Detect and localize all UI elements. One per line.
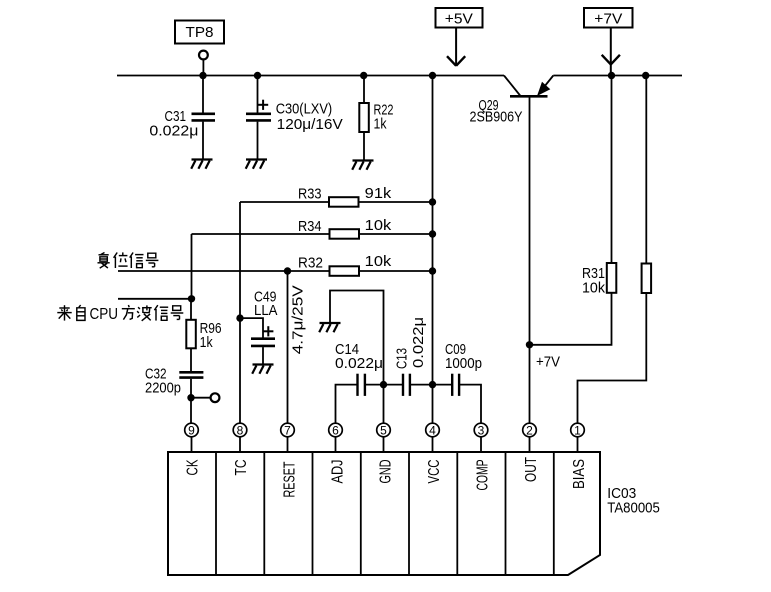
node junction R22 on rail [360,72,367,79]
capacitor C13 [384,374,433,396]
wire Q29 base down to pin 2 OUT [529,98,531,424]
label R96 1k [200,320,222,351]
node junction VCC tap on rail [429,72,436,79]
power +7V arrow [602,28,620,76]
pin circle 8 [233,423,247,437]
svg-text:C13: C13 [394,348,411,369]
resistor R33 [240,197,433,207]
svg-text:ADJ: ADJ [330,460,347,484]
wire C32 node to open terminal [191,397,211,399]
label R32 10k [298,253,392,272]
svg-text:4.7μ/25V: 4.7μ/25V [290,285,307,354]
label Q29 2SB906Y [470,97,523,126]
svg-text:BIAS: BIAS [571,459,588,489]
IC03 internal dividers [216,452,554,575]
svg-text:C30(LXV): C30(LXV) [276,101,333,118]
svg-text:1: 1 [574,423,581,437]
node junction C30 on rail [254,72,261,79]
svg-text:4: 4 [429,423,436,437]
IC U IC03 body [168,452,600,575]
svg-text:1k: 1k [374,116,387,133]
node junction reset line to pin 7 [284,267,291,274]
wire pin 7 RESET vertical [287,271,289,423]
power +7V box [584,8,633,28]
svg-text:TC: TC [233,460,250,476]
node label reset signal (hand-drawn CJK) [98,252,159,268]
node junction +7V arrow on rail [608,72,615,79]
node junction C32 bottom / pin 9 [187,394,194,401]
svg-text:2SB906Y: 2SB906Y [470,109,523,126]
ground for C31 [191,160,212,169]
wire pin 6 ADJ up to C14 [336,385,358,424]
label C13 rotated [394,317,428,369]
wire R31 bottom to +7V node [530,293,612,345]
ground for R22 [352,161,373,170]
svg-text:8: 8 [237,423,244,437]
resistor bias (unlabeled) [578,76,652,424]
label R31 10k [582,265,605,297]
svg-text:RESET: RESET [282,461,299,497]
svg-text:+7V: +7V [536,354,560,371]
capacitor C14 [358,374,384,396]
transistor Q29 collector diagonal [504,76,521,97]
pin circle 6 [329,423,343,437]
capacitor C31 [192,76,216,160]
label C49 LLA [254,289,278,320]
label R22 value [374,102,394,133]
svg-text:TA80005: TA80005 [607,499,660,516]
pin circle 2 [523,423,537,437]
label C14 value [335,341,383,372]
svg-text:10k: 10k [582,280,605,297]
label C32 2200p [145,366,181,397]
ground for GND pin branch [319,323,340,332]
wire VCC vertical pin 4 line [432,76,434,424]
transistor Q29 emitter diagonal with arrow [537,76,553,97]
open terminal circle near C32 [211,393,220,402]
svg-text:10k: 10k [365,253,392,270]
wire main supply rail left segment [117,75,504,77]
wire CPU square wave stub [118,298,192,300]
label R33 91k [298,185,392,203]
ground for C49 [252,365,273,374]
node junction R33/VCC line [429,198,436,205]
svg-text:10k: 10k [365,217,392,234]
node junction R34/VCC line [429,230,436,237]
svg-text:0.022μ: 0.022μ [335,355,383,372]
svg-text:+7V: +7V [594,11,622,28]
svg-text:CK: CK [185,459,202,475]
wire R34 left down to CPU node [191,234,193,299]
node junction CPU stub / R96 [188,295,195,302]
resistor R31 [607,76,617,293]
svg-text:R34: R34 [298,218,322,235]
label C31 value [149,108,198,140]
pin circle 1 [571,423,585,437]
wire pin 5 GND up and over to ground [330,291,384,424]
capacitor C49 electrolytic [240,318,275,364]
node junction C49 tap on pin8 line [236,314,243,321]
wire TP8 to rail [202,60,204,76]
svg-text:2200p: 2200p [145,380,181,397]
svg-text:3: 3 [478,423,485,437]
node junction bias resistor on rail [642,72,649,79]
resistor R34 [192,229,433,239]
svg-text:TP8: TP8 [186,24,214,41]
pin circle 9 [185,423,199,437]
svg-text:0.022μ: 0.022μ [149,123,198,140]
wire reset signal line / R32 row [118,266,433,276]
node junction C13/C09/pin4 [429,381,436,388]
capacitor C30 electrolytic [246,76,271,160]
svg-text:120μ/16V: 120μ/16V [277,116,343,133]
label IC03 TA80005 [607,485,660,517]
node junction TP8/C31 on rail [199,72,206,79]
svg-text:R32: R32 [298,255,323,272]
resistor R96 [186,299,196,371]
wires pin circles to IC box [192,437,578,452]
svg-text:91k: 91k [365,185,392,202]
test point TP8 terminal circle [199,51,208,60]
svg-text:CPU: CPU [90,306,119,323]
pin circle 5 [377,423,391,437]
ground for C30 [246,160,267,169]
svg-text:5: 5 [380,423,387,437]
svg-text:OUT: OUT [523,457,540,482]
svg-text:1k: 1k [200,334,213,351]
resistor R22 [359,76,369,161]
power +5V arrow [447,28,465,66]
svg-text:COMP: COMP [475,460,492,491]
svg-text:9: 9 [188,423,195,437]
transistor Q29 base bar [510,95,548,98]
test point TP8 box [175,21,224,44]
capacitor C09 [433,374,482,424]
svg-text:0.022μ: 0.022μ [410,317,427,368]
power +5V box [436,8,483,28]
capacitor C32 [179,372,203,423]
svg-text:+5V: +5V [445,11,473,28]
pin circle 3 [474,423,488,437]
pin circle 4 [426,423,440,437]
node junction C14/C13/pin5 [380,381,387,388]
node junction R32/VCC line [429,267,436,274]
svg-text:VCC: VCC [426,460,443,484]
pin circle 7 [281,423,295,437]
svg-text:6: 6 [332,423,339,437]
wire main supply rail right segment [553,75,682,77]
svg-text:GND: GND [378,460,395,484]
node junction +7V on pin2 line [526,341,533,348]
label C30 value [276,101,343,134]
svg-text:LLA: LLA [254,302,278,319]
node label from-CPU-square-wave signal (hand-drawn CJK) [57,305,183,323]
label C09 value [445,341,482,372]
svg-text:7: 7 [284,423,291,437]
label R34 10k [298,217,392,235]
svg-text:1000p: 1000p [445,355,482,372]
svg-text:R33: R33 [298,186,322,203]
svg-text:2: 2 [526,423,533,437]
wire R33 left down to pin 8 TC [239,202,241,423]
